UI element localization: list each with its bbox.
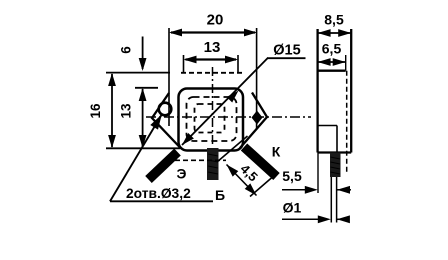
svg-text:Ø15: Ø15 [273,43,300,59]
base lead (hatched) [207,148,219,180]
diameter 15 dimension diagonal [182,58,268,145]
svg-text:13: 13 [119,103,134,119]
collector lead (hatched) [244,147,277,177]
leader underline [110,200,213,202]
dimension 5.5 line [282,189,309,191]
side view right face [350,29,352,153]
dimension 13 left line [142,89,144,147]
extension line body top [135,87,158,89]
svg-text:Ø1: Ø1 [283,200,302,216]
dimension 6 line [142,37,144,70]
extension line flange top [106,72,170,74]
side view left face [316,29,318,153]
dimension 4.5 extension lines [217,136,248,162]
dimension 4.5 line [227,165,257,196]
dimension 6.5 line [318,61,346,63]
dimension 20 line [171,31,255,33]
extension line for 5.5 [317,153,319,194]
side view top edge [318,70,346,72]
extension line right of dim 20 [256,28,258,129]
extension line flange bottom [106,147,180,149]
side view lead thin part [330,177,332,223]
hidden dashed edge in side view [346,71,348,173]
inner dashed rounded square [187,97,237,141]
side view inner step [318,125,337,127]
dimension 16 line [111,74,113,147]
svg-text:К: К [272,144,281,160]
svg-text:8,5: 8,5 [324,12,344,28]
svg-text:Э: Э [177,166,187,182]
emitter lead (hatched) [149,152,178,180]
extension lines of dim 13 top [183,55,185,72]
package body rounded square [179,89,244,151]
hidden dashed line below body [167,159,226,161]
left mounting hole [159,103,172,116]
inner small dashed square [195,104,225,133]
dimension 8.5 line [318,32,352,34]
leader line for 2 holes [110,114,162,201]
svg-text:20: 20 [207,12,224,29]
hidden flange top edge (dashed) [181,72,243,74]
dimension 13 top line [186,58,237,60]
diameter 1 line [282,218,322,220]
horizontal centerline [146,116,311,118]
svg-text:6: 6 [119,46,134,54]
side view lead upper part (hatched) [330,153,341,178]
svg-text:13: 13 [204,39,221,56]
side view bottom edge [318,151,352,153]
svg-text:2отв.Ø3,2: 2отв.Ø3,2 [126,186,191,201]
extension for 6.5 [345,55,347,71]
svg-text:5,5: 5,5 [282,168,302,184]
extension line left of dim 20 [168,28,170,126]
right ear of flange [240,93,267,149]
svg-text:6,5: 6,5 [322,41,342,57]
svg-text:Б: Б [215,187,225,203]
right mounting hole (filled) [252,111,263,125]
vertical centerline [212,67,214,146]
svg-text:16: 16 [88,103,103,119]
left ear of flange [152,93,181,149]
